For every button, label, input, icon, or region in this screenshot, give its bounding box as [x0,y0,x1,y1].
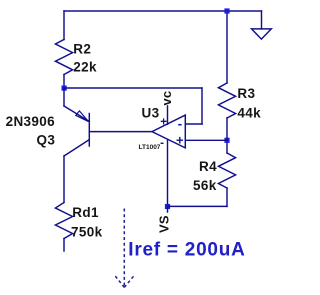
svg-text:Iref = 200uA: Iref = 200uA [128,240,245,261]
resistor R2 [55,40,97,89]
svg-text:44k: 44k [237,105,261,120]
svg-text:750k: 750k [71,225,103,240]
svg-text:2N3906: 2N3906 [6,114,56,129]
wire top rail [64,10,262,12]
svg-text:+: + [176,133,184,148]
annotation Iref dashed current arrow [115,209,135,288]
svg-text:56k: 56k [193,178,217,193]
wire VS label stub [167,206,169,212]
svg-text:LT1007: LT1007 [139,144,161,151]
svg-text:R3: R3 [237,86,255,101]
op-amp U3 LT1007 [139,106,186,207]
wire inverting input stub [185,123,202,125]
wire R4 bottom lead [226,188,228,206]
wire ground lead [261,11,263,29]
svg-text:+: + [160,116,167,128]
svg-text:R4: R4 [199,159,217,174]
wire op-amp output to base [89,131,152,133]
wire emitter node to inverting input (horizontal) [64,87,202,89]
svg-text:vc: vc [159,91,174,106]
ground [252,29,272,39]
resistor Rd1 [55,203,102,252]
wire R2 top lead [63,11,65,40]
svg-text:-: - [178,116,182,131]
svg-text:-: - [160,138,164,150]
node junction below R2 [62,86,67,91]
svg-text:VS: VS [157,215,172,233]
wire bottom rail to R4 [168,205,228,207]
resistor R3 [218,11,261,120]
wire down to inverting input [201,88,203,124]
node junction at top rail / R3 [224,8,229,13]
wire collector lead [63,156,65,202]
svg-text:U3: U3 [142,106,160,121]
svg-text:Rd1: Rd1 [72,205,99,220]
wire non-inverting input [185,139,227,141]
resistor R4 [193,140,236,193]
svg-text:22k: 22k [73,60,97,75]
node junction at R3/R4/+input [224,138,229,143]
svg-text:R2: R2 [73,42,91,57]
svg-text:Q3: Q3 [37,132,56,147]
wire emitter lead [63,88,65,106]
node junction at op-amp V- / R4 bottom [165,204,170,209]
wire R3 bottom lead [226,118,228,140]
transistor Q3 2N3906 [6,106,90,156]
